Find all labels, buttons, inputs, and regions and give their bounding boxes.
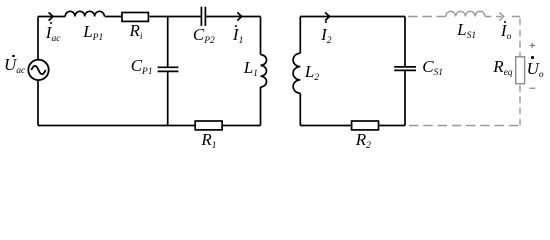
dashed wire LS1 to corner (485, 16, 520, 18)
capacitor CS1 (394, 67, 416, 71)
dashed wire bottom (409, 125, 520, 127)
dashed wire right vertical upper (519, 18, 521, 56)
arrow I1 (237, 12, 241, 20)
capacitor CP1 (158, 67, 179, 71)
label I1 dot (235, 25, 237, 27)
plus sign (530, 43, 536, 49)
label Uac dot (12, 55, 14, 57)
label Io dot (504, 21, 506, 23)
wire LP1 to Ri (105, 16, 122, 18)
label LS1 (457, 24, 476, 39)
label Uo (527, 63, 544, 78)
label Io (501, 25, 511, 40)
label I1 (233, 29, 243, 44)
resistor Req (516, 57, 525, 84)
label R2 (356, 134, 371, 149)
inductor LS1 (446, 11, 485, 16)
arrow Iac (49, 12, 53, 20)
label I2 dot (325, 21, 327, 23)
inductor LP1 (65, 11, 104, 16)
wire top circuit 2 (300, 16, 405, 18)
label L2 (305, 66, 319, 81)
wire CP1 branch upper (167, 17, 169, 67)
arrow I2 (325, 12, 329, 20)
wire CP2 to corner (206, 16, 260, 18)
wire left vertical below L2 (299, 93, 301, 125)
label Iac dot (50, 22, 52, 24)
label CP2 (193, 29, 215, 44)
capacitor CP2 (201, 7, 205, 26)
wire R1 to right corner (223, 125, 261, 127)
wire right vertical above CS1 (404, 17, 406, 67)
wire left vertical above source (37, 17, 39, 60)
label CP1 (131, 60, 153, 75)
label Iac (46, 27, 61, 42)
dashed wire top to LS1 (408, 16, 446, 18)
wire right vertical below L1 (260, 87, 262, 126)
label Req (493, 61, 512, 76)
wire right vertical below CS1 (404, 71, 406, 125)
resistor Ri (122, 13, 148, 22)
arrow Io (499, 12, 503, 20)
wire bottom circuit 2 left (300, 125, 351, 127)
wire top left circuit 1 (38, 16, 65, 18)
label Uac (4, 59, 25, 74)
label L1 (244, 62, 258, 77)
resistor R1 (195, 121, 222, 130)
wire CP1 branch lower (167, 72, 169, 125)
label R1 (201, 134, 216, 149)
label Uo dot (531, 56, 534, 59)
inductor L1 (261, 55, 267, 87)
label LP1 (83, 26, 103, 41)
wire bottom left (38, 125, 195, 127)
label Ri (130, 25, 143, 40)
wire Ri to CP2 (150, 16, 201, 18)
ac source Uac circle (28, 60, 48, 80)
label I2 (321, 29, 331, 44)
dashed wire right vertical lower (519, 85, 521, 126)
wire left vertical below source (37, 80, 39, 126)
wire left vertical above L2 (299, 17, 301, 54)
minus sign (529, 87, 535, 89)
inductor L2 (293, 53, 300, 93)
wire R2 to right (380, 125, 406, 127)
resistor R2 (352, 121, 379, 130)
ac source sine (31, 66, 45, 74)
label CS1 (422, 61, 443, 76)
wire right vertical above L1 (260, 17, 262, 55)
